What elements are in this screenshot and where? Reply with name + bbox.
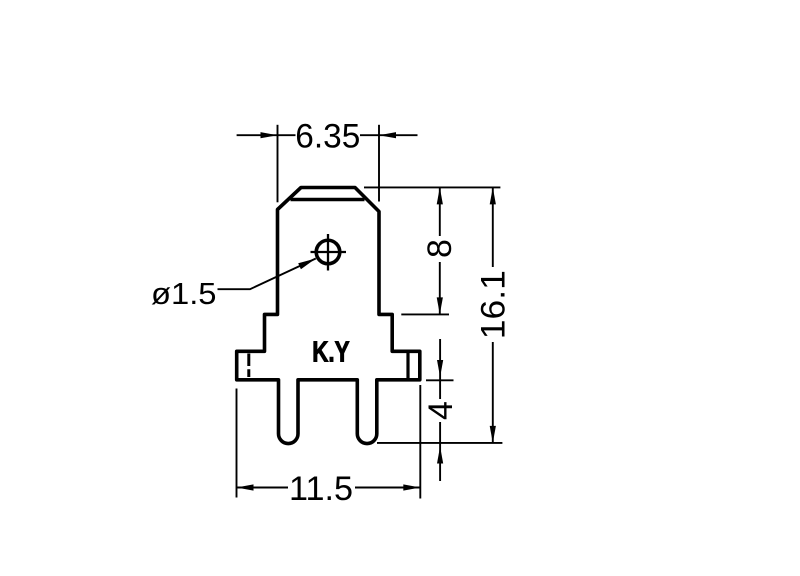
svg-text:16.1: 16.1 bbox=[475, 270, 513, 339]
dim 16.1 line upper bbox=[492, 187, 494, 267]
svg-text:8: 8 bbox=[421, 239, 459, 258]
leader line for hole label bbox=[218, 259, 316, 290]
svg-text:ø1.5: ø1.5 bbox=[151, 276, 217, 311]
dim 6.35 line left bbox=[237, 134, 296, 136]
dim 11.5 arrowhead right (points right) bbox=[403, 484, 420, 490]
svg-text:6.35: 6.35 bbox=[295, 117, 360, 155]
dim 11.5 extension line left bbox=[236, 389, 238, 498]
dim 8 arrowhead bottom bbox=[437, 297, 443, 314]
part outline bbox=[237, 188, 420, 444]
pin-bottom extension line for 4 and 16.1 bbox=[377, 442, 502, 444]
shoulder extension line for 8 bbox=[401, 313, 449, 315]
dim 4 line upper bbox=[439, 339, 441, 399]
dim 6.35 arrowhead left bbox=[261, 132, 278, 138]
seam line left (hidden, dashed) bbox=[247, 354, 250, 378]
svg-text:11.5: 11.5 bbox=[289, 470, 353, 508]
tip chamfer inner line bbox=[291, 198, 365, 202]
dim 16.1 arrowhead bottom bbox=[490, 426, 496, 443]
dim 4 arrowhead bottom (points up) bbox=[437, 447, 443, 464]
dim 8 line upper bbox=[439, 187, 441, 236]
dim 11.5 arrowhead left (points left) bbox=[237, 484, 254, 490]
dim 8 line lower bbox=[439, 262, 441, 314]
leader arrowhead bbox=[298, 259, 316, 270]
dim 6.35 extension line left bbox=[277, 125, 279, 203]
flange-bottom extension line for 4 bbox=[426, 379, 454, 381]
svg-text:4: 4 bbox=[422, 401, 460, 420]
hole circle ø1.5 bbox=[316, 240, 340, 264]
dim 16.1 arrowhead top bbox=[490, 187, 496, 204]
top extension line for 8 and 16.1 bbox=[364, 186, 500, 188]
hole centerline horizontal bbox=[311, 251, 347, 253]
svg-text:K.Y: K.Y bbox=[312, 337, 349, 369]
seam line right (solid) bbox=[406, 351, 409, 380]
dim 11.5 line right bbox=[355, 487, 420, 489]
dim 4 arrowhead top (points down) bbox=[437, 360, 443, 377]
hole centerline vertical bbox=[327, 234, 329, 271]
dim 11.5 extension line right bbox=[419, 385, 421, 499]
dim 6.35 extension line right bbox=[378, 125, 380, 202]
dim 11.5 line left bbox=[237, 487, 289, 489]
dim 8 arrowhead top bbox=[437, 187, 443, 204]
dim 16.1 line lower bbox=[492, 342, 494, 443]
dim 6.35 arrowhead right bbox=[379, 132, 396, 138]
dim 4 line lower bbox=[439, 422, 441, 481]
dim 6.35 line right bbox=[360, 134, 418, 136]
